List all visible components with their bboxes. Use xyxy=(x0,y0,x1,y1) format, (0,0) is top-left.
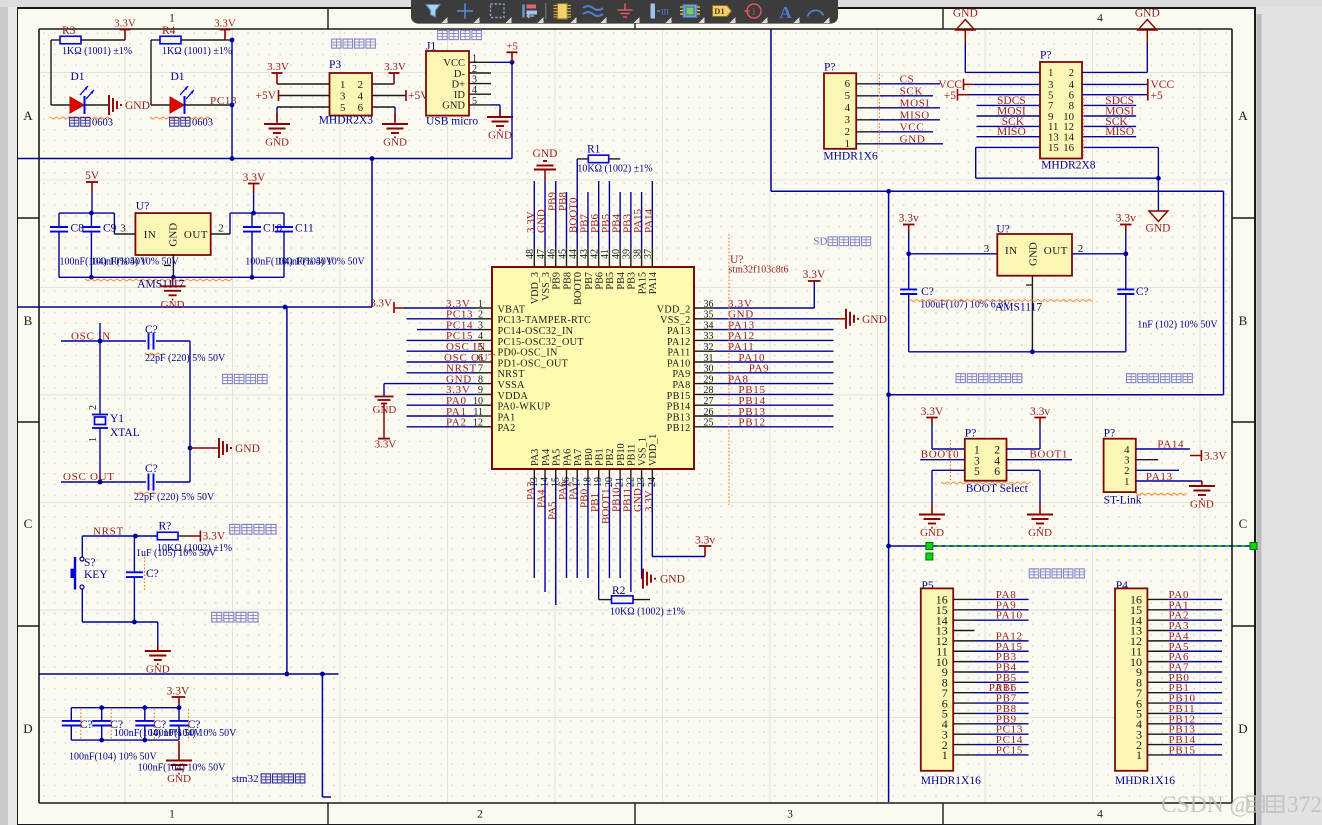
svg-text:GND: GND xyxy=(1028,242,1040,266)
wire pin6 down xyxy=(394,107,396,120)
wire osc out xyxy=(61,481,146,483)
capacitor C? (decouple 1) xyxy=(70,708,72,721)
svg-text:D+: D+ xyxy=(451,79,465,90)
error squiggle vertical xyxy=(728,234,730,505)
svg-text:3: 3 xyxy=(845,114,850,126)
svg-text:2: 2 xyxy=(1078,243,1084,255)
svg-text:2: 2 xyxy=(477,809,483,821)
comment BOOT Select xyxy=(941,482,1031,484)
ground GND (sd) xyxy=(1149,211,1168,222)
svg-text:PB4: PB4 xyxy=(616,272,627,290)
watermark CSDN xyxy=(1161,792,1322,818)
svg-text:C?: C? xyxy=(80,719,93,731)
svg-text:PA5: PA5 xyxy=(552,449,563,466)
svg-text:VCC: VCC xyxy=(900,121,925,133)
svg-text:3.3V: 3.3V xyxy=(243,172,266,184)
svg-text:stm32f103c8t6: stm32f103c8t6 xyxy=(729,265,789,276)
wire/net label SDCS (right) xyxy=(1082,104,1136,106)
svg-text:PB11: PB11 xyxy=(627,444,638,466)
power +5V (P3 right) xyxy=(405,90,407,101)
wire/net label SCK (right) xyxy=(1082,125,1136,127)
svg-text:PB1: PB1 xyxy=(594,448,605,466)
wire xyxy=(50,40,52,105)
svg-text:PA14: PA14 xyxy=(648,272,659,294)
svg-text:+5: +5 xyxy=(506,41,518,53)
svg-text:MHDR1X6: MHDR1X6 xyxy=(823,150,878,162)
svg-text:PA2: PA2 xyxy=(498,423,516,434)
svg-text:U?: U? xyxy=(136,201,149,213)
capacitor C9 xyxy=(90,213,92,227)
svg-text:22pF (220) 5% 50V: 22pF (220) 5% 50V xyxy=(145,353,226,364)
left window edge xyxy=(0,0,8,825)
ground GND (J1) xyxy=(499,110,501,117)
wire/net label MOSI (left) xyxy=(977,115,1041,117)
capacitor C? (decouple 2) xyxy=(101,708,103,721)
svg-text:PD0-OSC_IN: PD0-OSC_IN xyxy=(498,348,559,359)
svg-text:3.3V: 3.3V xyxy=(1204,451,1227,463)
ground GND (VSSA) xyxy=(383,384,385,397)
svg-text:A: A xyxy=(779,3,792,22)
svg-text:GND: GND xyxy=(1135,8,1160,20)
svg-text:1: 1 xyxy=(1136,748,1142,762)
svg-text:PA4: PA4 xyxy=(541,449,552,466)
svg-text:1: 1 xyxy=(340,79,345,91)
power ground GND (VSS_2) xyxy=(835,318,846,320)
wire/net label SDCS (left) xyxy=(977,104,1041,106)
svg-text:3.3V: 3.3V xyxy=(114,18,136,30)
svg-text:GND: GND xyxy=(265,137,289,149)
svg-text:VDD_3: VDD_3 xyxy=(530,272,541,304)
svg-text:GND: GND xyxy=(533,148,558,160)
svg-text:CSDN @: CSDN @ xyxy=(1161,792,1251,818)
section title 复位电路 (2) xyxy=(212,612,222,622)
svg-text:D1: D1 xyxy=(714,6,724,16)
power ground GND (LED1) xyxy=(108,95,110,115)
zone dividers left/right margins xyxy=(17,217,39,219)
svg-text:1: 1 xyxy=(88,437,99,442)
svg-text:B: B xyxy=(1239,313,1248,328)
section title 晶振电路 xyxy=(223,374,233,383)
svg-text:2: 2 xyxy=(845,126,850,138)
svg-text:10KΩ (1002) ±1%: 10KΩ (1002) ±1% xyxy=(610,607,685,618)
svg-text:GND: GND xyxy=(125,100,150,112)
ground GND (P3 left) xyxy=(276,113,278,124)
svg-text:10KΩ (1002) ±1%: 10KΩ (1002) ±1% xyxy=(577,163,652,174)
svg-text:MHDR2X3: MHDR2X3 xyxy=(319,115,374,127)
wire horizontal y=394.7 xyxy=(889,394,1224,396)
svg-text:3.3V: 3.3V xyxy=(921,406,944,418)
wire pin5 to ground xyxy=(491,104,500,106)
svg-text:PA1: PA1 xyxy=(498,412,516,423)
svg-text:4: 4 xyxy=(1097,809,1103,821)
icon ground xyxy=(624,4,626,11)
svg-text:PB0: PB0 xyxy=(584,448,595,466)
svg-text:GND: GND xyxy=(1190,499,1214,511)
svg-text:D1: D1 xyxy=(171,71,185,83)
svg-text:PB2: PB2 xyxy=(605,448,616,466)
svg-text:GND: GND xyxy=(953,8,978,20)
wire/net label MISO (right) xyxy=(1082,136,1136,138)
wire section boundary vertical x=771 xyxy=(770,30,772,192)
icon sheet part xyxy=(683,5,697,18)
svg-text:A: A xyxy=(1238,108,1248,123)
svg-text:PC14-OSC32_IN: PC14-OSC32_IN xyxy=(498,326,574,337)
capacitor C11 xyxy=(283,213,285,227)
svg-text:P?: P? xyxy=(1040,50,1052,62)
sheet inner border xyxy=(39,28,1232,30)
power 3.3V (stlink) xyxy=(1190,455,1201,457)
svg-text:MISO: MISO xyxy=(1105,126,1134,138)
capacitor C? (100uF) xyxy=(908,254,910,290)
wire top rail left xyxy=(59,212,114,214)
svg-text:B: B xyxy=(24,313,33,328)
svg-text:C?: C? xyxy=(921,286,934,298)
section title 电源指示灯 xyxy=(1029,569,1039,578)
ground GND (pin1) xyxy=(956,20,975,31)
ground GND (boot right) xyxy=(1039,504,1041,515)
svg-text:C?: C? xyxy=(145,463,158,475)
svg-text:III: III xyxy=(661,8,669,17)
wires P3 right xyxy=(372,83,394,85)
ground GND (boot left) xyxy=(931,504,933,515)
comment AMS1117 xyxy=(85,279,232,281)
wire/net label MOSI (right) xyxy=(1082,115,1136,117)
ground GND (stlink) xyxy=(1201,481,1203,486)
svg-text:PB7: PB7 xyxy=(584,272,595,290)
svg-text:1KΩ (1001) ±1%: 1KΩ (1001) ±1% xyxy=(62,46,132,57)
wire y=674 xyxy=(39,673,339,675)
svg-text:3.3V: 3.3V xyxy=(803,269,826,281)
wire LED1 to GND xyxy=(85,104,109,106)
zone dividers top/bottom margins xyxy=(327,8,329,29)
svg-text:stm32: stm32 xyxy=(232,773,259,785)
svg-text:5: 5 xyxy=(845,90,850,102)
svg-text:PB12: PB12 xyxy=(667,423,691,434)
wire pin4 PA14 xyxy=(1136,448,1190,450)
svg-text:6: 6 xyxy=(845,78,851,90)
svg-text:2: 2 xyxy=(358,79,363,91)
selection handles xyxy=(926,543,933,550)
svg-text:C?: C? xyxy=(1136,286,1149,298)
svg-text:PA10: PA10 xyxy=(667,358,690,369)
ground GND (reg) xyxy=(172,277,174,286)
svg-text:16: 16 xyxy=(1063,142,1074,154)
svg-text:2: 2 xyxy=(218,223,224,235)
svg-text:PB15: PB15 xyxy=(667,391,691,402)
wire GND bus 1 xyxy=(18,158,512,160)
svg-text:3.3V: 3.3V xyxy=(203,531,226,543)
dropdown triangles xyxy=(442,17,448,23)
svg-text:5: 5 xyxy=(340,102,345,114)
svg-text:3.3v: 3.3v xyxy=(1030,406,1050,418)
wire/net label MISO (left) xyxy=(977,136,1041,138)
wire rails xyxy=(71,707,179,709)
svg-text:3.3V: 3.3V xyxy=(370,298,392,310)
svg-text:PA7: PA7 xyxy=(573,449,584,466)
wire vertical x=320 xyxy=(321,674,323,797)
svg-text:MISO: MISO xyxy=(997,126,1026,138)
svg-text:100nF(104) 10% 50V: 100nF(104) 10% 50V xyxy=(69,752,158,763)
svg-text:GND: GND xyxy=(920,527,944,539)
svg-text:C8: C8 xyxy=(71,223,85,235)
wire pin1 to GND xyxy=(965,71,1040,73)
svg-text:OSC OUT: OSC OUT xyxy=(63,471,115,483)
svg-text:PB15: PB15 xyxy=(1169,744,1196,756)
svg-text:PB14: PB14 xyxy=(667,402,691,413)
svg-text:GND: GND xyxy=(1028,527,1052,539)
svg-text:PA8: PA8 xyxy=(672,380,690,391)
svg-text:VSS_3: VSS_3 xyxy=(541,272,552,301)
svg-text:PC15: PC15 xyxy=(996,744,1023,756)
label 红灯 0603 xyxy=(170,117,179,126)
section title 电源输入 xyxy=(438,31,448,40)
svg-text:PB12: PB12 xyxy=(738,417,765,429)
wire pin6 to gnd xyxy=(1007,469,1041,471)
wire nrst xyxy=(82,535,157,537)
svg-text:4: 4 xyxy=(358,90,364,102)
wire pin16 path xyxy=(1082,146,1158,148)
sheet shadow right xyxy=(1257,14,1262,825)
svg-text:AMS1117: AMS1117 xyxy=(137,279,184,291)
ground GND (decouple) xyxy=(178,741,180,761)
switch S? KEY xyxy=(81,536,83,557)
svg-text:GND: GND xyxy=(660,574,685,586)
section title 复位电路 xyxy=(230,524,240,534)
icon bus xyxy=(583,6,603,10)
wire bottom xyxy=(82,621,158,623)
svg-text:1: 1 xyxy=(845,138,850,150)
svg-text:ST-Link: ST-Link xyxy=(1104,495,1142,507)
wire GND bus 2 xyxy=(18,306,372,308)
wire bottom rail xyxy=(909,351,1126,353)
svg-text:PA6: PA6 xyxy=(562,449,573,466)
power 3.3V (below GND) xyxy=(383,404,385,439)
svg-text:1: 1 xyxy=(1048,67,1053,79)
svg-text:2: 2 xyxy=(88,405,99,410)
svg-text:3.3V: 3.3V xyxy=(214,18,236,30)
power 3.3V xyxy=(224,30,226,41)
svg-text:GND: GND xyxy=(862,314,887,326)
wire +5 rail down to bus xyxy=(511,62,513,158)
svg-text:GND: GND xyxy=(536,209,548,233)
svg-text:2: 2 xyxy=(1069,67,1074,79)
svg-text:GND: GND xyxy=(161,299,185,311)
svg-text:P?: P? xyxy=(824,61,836,73)
power ground GND (xtal) xyxy=(190,447,218,449)
crystal Y1 XTAL xyxy=(99,341,101,415)
svg-text:D: D xyxy=(23,721,32,736)
svg-text:P3: P3 xyxy=(329,59,341,71)
svg-text:PD1-OSC_OUT: PD1-OSC_OUT xyxy=(498,358,569,369)
svg-text:A: A xyxy=(23,108,33,123)
svg-text:3.3V: 3.3V xyxy=(375,439,397,451)
icon no-erc xyxy=(747,4,761,18)
svg-text:100nF(104) 10% 50V: 100nF(104) 10% 50V xyxy=(91,257,180,268)
power 3.3V (P3 right) xyxy=(393,73,395,84)
ground GND (pin2) xyxy=(1138,20,1157,31)
ground GND (top right) xyxy=(1157,178,1159,183)
svg-text:PC13-TAMPER-RTC: PC13-TAMPER-RTC xyxy=(498,315,592,326)
svg-text:PA5: PA5 xyxy=(546,501,558,520)
svg-text:PA13: PA13 xyxy=(667,326,690,337)
svg-text:6: 6 xyxy=(358,102,364,114)
svg-text:C?: C? xyxy=(145,324,158,336)
svg-text:1: 1 xyxy=(169,13,175,25)
svg-text:MHDR1X16: MHDR1X16 xyxy=(1115,775,1175,787)
section title 程序烧录接口 xyxy=(1126,374,1135,383)
capacitor C? (decouple 4) xyxy=(178,708,180,721)
svg-text:100nF(104) 10% 50V: 100nF(104) 10% 50V xyxy=(138,763,227,774)
wire out xyxy=(1072,253,1126,255)
capacitor C10 xyxy=(251,213,253,227)
svg-text:3: 3 xyxy=(787,809,793,821)
svg-text:3.3v: 3.3v xyxy=(899,213,919,225)
svg-text:ID: ID xyxy=(454,90,465,101)
wire vertical x=888.6 xyxy=(888,191,890,802)
svg-text:3.3v: 3.3v xyxy=(1116,213,1136,225)
svg-text:MISO: MISO xyxy=(900,109,930,121)
svg-text:S?: S? xyxy=(84,557,96,569)
svg-text:OUT: OUT xyxy=(1044,245,1068,257)
wire bottom rail xyxy=(59,276,284,278)
svg-text:1: 1 xyxy=(169,809,175,821)
wire pin15 path xyxy=(976,146,1040,148)
svg-text:SD: SD xyxy=(813,236,827,248)
svg-text:AMS1117: AMS1117 xyxy=(995,302,1042,314)
power +5 xyxy=(511,52,513,62)
wire pin3 xyxy=(1136,459,1158,461)
power ground GND (pin23) xyxy=(642,578,643,580)
mcu U? stm32f103c8t6 xyxy=(492,267,694,469)
svg-text:IN: IN xyxy=(1005,245,1018,257)
svg-text:BOOT1: BOOT1 xyxy=(1030,448,1068,460)
power VCC (right) xyxy=(1082,83,1148,85)
svg-text:PA9: PA9 xyxy=(672,369,690,380)
svg-text:C?: C? xyxy=(146,568,159,580)
wire pin2 to GND xyxy=(1082,71,1147,73)
wire gnd pin down xyxy=(1031,276,1033,352)
icon crosshair xyxy=(464,4,466,19)
svg-text:CS: CS xyxy=(900,73,915,85)
svg-text:MOSI: MOSI xyxy=(900,97,930,109)
svg-text:OUT: OUT xyxy=(184,229,208,241)
wire vertical PC13 down to bus xyxy=(231,40,233,159)
capacitor C8 xyxy=(58,213,60,227)
icon arc xyxy=(808,10,824,16)
wire pin1 to gnd xyxy=(1136,480,1202,482)
power 3.3V (VDD_2) xyxy=(808,280,821,282)
svg-text:3.3V: 3.3V xyxy=(267,61,289,73)
svg-text:6: 6 xyxy=(994,465,1000,478)
svg-text:VDD_2: VDD_2 xyxy=(657,304,691,315)
svg-text:100nF(104) 10% 50V: 100nF(104) 10% 50V xyxy=(277,257,366,268)
ground GND (reset) xyxy=(157,645,159,651)
capacitor C? (1uF) xyxy=(133,536,135,572)
svg-text:15: 15 xyxy=(1048,142,1059,154)
svg-text:+5V: +5V xyxy=(255,90,276,102)
svg-text:D1: D1 xyxy=(71,71,85,83)
svg-text:VSS_1: VSS_1 xyxy=(637,437,648,466)
toolbar background xyxy=(411,0,838,24)
svg-text:4: 4 xyxy=(1097,13,1103,25)
svg-text:VDD_1: VDD_1 xyxy=(648,434,659,466)
toolbar separator xyxy=(545,3,547,19)
icon selection xyxy=(491,4,505,18)
capacitor C? (decouple 3) xyxy=(144,708,146,721)
svg-text:0603: 0603 xyxy=(92,118,113,129)
svg-text:3: 3 xyxy=(120,223,126,235)
svg-text:MHDR2X8: MHDR2X8 xyxy=(1041,159,1096,171)
svg-text:C: C xyxy=(1239,516,1248,531)
wire to IN xyxy=(909,253,998,255)
svg-text:PA14: PA14 xyxy=(1157,439,1184,451)
svg-text:VSS_2: VSS_2 xyxy=(660,315,690,326)
comment AMS1117 xyxy=(910,299,1092,301)
svg-text:PB6: PB6 xyxy=(594,272,605,290)
wire section boundary horizontal y=191.3 xyxy=(771,190,1224,192)
svg-text:NRST: NRST xyxy=(498,369,526,380)
power 3.3V xyxy=(124,30,126,41)
svg-text:PA2: PA2 xyxy=(446,417,467,429)
wire pin2 PA13 xyxy=(1136,469,1179,471)
wire osc in xyxy=(61,340,146,342)
power 3.3V (P3 left) xyxy=(276,73,278,84)
svg-text:BOOT0: BOOT0 xyxy=(573,272,584,305)
svg-text:VSSA: VSSA xyxy=(498,380,526,391)
svg-text:KEY: KEY xyxy=(84,569,108,581)
svg-text:C10: C10 xyxy=(263,223,282,235)
svg-text:XTAL: XTAL xyxy=(110,427,140,439)
wire gnd pin down xyxy=(172,255,174,277)
svg-text:PA3: PA3 xyxy=(530,449,541,466)
icon designator xyxy=(713,6,732,17)
label 红灯 0603 xyxy=(70,117,79,126)
svg-text:PA10: PA10 xyxy=(996,610,1023,622)
pin 1 gnd tick xyxy=(164,265,171,267)
power +5V (P3 left) xyxy=(278,90,280,101)
icon align xyxy=(522,5,524,18)
svg-text:3.3v: 3.3v xyxy=(695,535,715,547)
svg-text:PA0-WKUP: PA0-WKUP xyxy=(498,402,551,413)
svg-text:PA12: PA12 xyxy=(667,337,690,348)
wire right leg xyxy=(189,341,191,482)
svg-text:100nF(104) 10% 50V: 100nF(104) 10% 50V xyxy=(149,728,238,739)
svg-text:1nF (102) 10% 50V: 1nF (102) 10% 50V xyxy=(1137,319,1218,330)
ground GND (P3 right) xyxy=(394,113,396,124)
svg-text:IN: IN xyxy=(144,229,157,241)
svg-text:PB3: PB3 xyxy=(627,272,638,290)
svg-text:1uF (105) 10% 50V: 1uF (105) 10% 50V xyxy=(136,548,217,559)
svg-text:1: 1 xyxy=(1124,476,1129,488)
svg-text:D-: D- xyxy=(454,69,466,80)
svg-text:SCK: SCK xyxy=(900,85,924,97)
svg-text:3: 3 xyxy=(340,90,345,102)
pin1 tick xyxy=(1026,284,1033,286)
resistor R2 xyxy=(599,599,612,601)
svg-text:VCC: VCC xyxy=(443,58,465,69)
svg-text:R4: R4 xyxy=(162,25,176,37)
svg-text:5V: 5V xyxy=(85,170,100,182)
wire LED2 cathode xyxy=(185,104,233,106)
wire/net label SCK (left) xyxy=(977,125,1041,127)
power 3.3v (VDD_1) xyxy=(652,556,705,558)
svg-text:GND: GND xyxy=(1146,223,1171,235)
svg-text:R?: R? xyxy=(159,521,172,533)
svg-text:GND: GND xyxy=(900,133,926,145)
svg-text:3.3V: 3.3V xyxy=(643,490,655,512)
svg-text:GND: GND xyxy=(167,773,191,785)
svg-text:USB micro: USB micro xyxy=(426,116,478,128)
